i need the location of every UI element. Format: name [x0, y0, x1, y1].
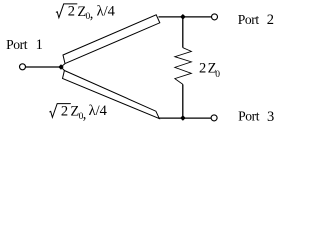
- svg-text:,: ,: [90, 6, 94, 22]
- svg-text:3: 3: [267, 109, 274, 125]
- svg-text:Port: Port: [238, 109, 260, 124]
- svg-text:Port: Port: [6, 37, 28, 52]
- svg-text:,: ,: [83, 106, 87, 122]
- svg-text:1: 1: [36, 37, 43, 53]
- svg-text:2: 2: [68, 4, 75, 20]
- svg-text:2: 2: [61, 103, 68, 119]
- svg-text:λ/4: λ/4: [89, 103, 108, 119]
- svg-text:λ/4: λ/4: [97, 4, 116, 20]
- svg-text:Port: Port: [238, 12, 260, 27]
- svg-text:2: 2: [267, 12, 274, 28]
- svg-text:0: 0: [215, 70, 220, 80]
- svg-text:2: 2: [199, 60, 206, 76]
